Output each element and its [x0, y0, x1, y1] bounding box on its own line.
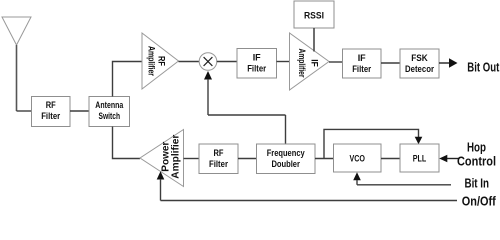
- wire IF amplifier to IF filter 2: [329, 61, 343, 63]
- wire LO: down to frequency doubler: [285, 115, 287, 144]
- wire mixer to IF filter 1: [217, 61, 237, 63]
- antenna switch: [89, 97, 130, 127]
- RF amplifier (receive): [142, 33, 179, 89]
- arrowhead into mixer (LO): [204, 71, 212, 80]
- svg-text:Detecor: Detecor: [405, 64, 434, 75]
- RSSI: [294, 1, 334, 28]
- VCO: [334, 144, 382, 172]
- wire on/off horizontal: [161, 200, 458, 202]
- svg-text:Bit In: Bit In: [465, 176, 490, 190]
- wire RSSI to IF amplifier: [313, 28, 315, 52]
- svg-text:Switch: Switch: [99, 111, 121, 122]
- IF amplifier: [290, 33, 330, 90]
- svg-text:RSSI: RSSI: [304, 11, 324, 22]
- wire LO: mixer down: [207, 79, 209, 115]
- arrowhead into power amplifier (on/off): [157, 171, 165, 179]
- wire bit in horizontal: [357, 184, 451, 186]
- wire RF filter to antenna switch: [70, 110, 89, 112]
- wire antenna switch down to power amplifier: [113, 127, 141, 159]
- wire VCO feedback to PLL: junction up: [324, 129, 419, 158]
- svg-text:RF: RF: [46, 100, 56, 111]
- wire hop control: [447, 158, 460, 160]
- svg-text:Filter: Filter: [41, 111, 60, 122]
- wire antenna to RF filter: [17, 110, 32, 112]
- wire frequency doubler to VCO: [315, 158, 334, 160]
- svg-text:RF: RF: [214, 148, 224, 159]
- svg-text:VCO: VCO: [349, 154, 365, 165]
- antenna stem wire: [16, 45, 18, 111]
- PLL: [400, 144, 439, 172]
- svg-text:Filter: Filter: [247, 64, 266, 75]
- wire RF amplifier to mixer: [179, 61, 200, 63]
- RF filter (receive): [32, 97, 71, 127]
- svg-text:IF: IF: [253, 53, 261, 64]
- RF filter (transmit): [199, 144, 238, 174]
- svg-text:Filter: Filter: [209, 159, 228, 170]
- wire LO horizontal: [208, 114, 286, 116]
- wire power amplifier to RF filter (tx): [184, 158, 200, 160]
- mixer: [199, 53, 217, 71]
- arrowhead bit out: [449, 58, 458, 68]
- svg-text:Antenna: Antenna: [95, 100, 124, 111]
- frequency doubler: [257, 144, 316, 174]
- IF filter 2: [343, 49, 382, 78]
- wire FSK detector to bit out arrow: [439, 62, 450, 64]
- svg-text:Doubler: Doubler: [271, 159, 300, 170]
- svg-text:Filter: Filter: [352, 64, 371, 75]
- svg-text:Hop: Hop: [467, 141, 486, 155]
- wire bit in vertical: [356, 180, 358, 185]
- FSK detector: [400, 49, 439, 78]
- svg-text:FSK: FSK: [411, 53, 428, 64]
- wire IF filter 1 to IF amplifier: [277, 61, 290, 63]
- wire on/off vertical: [160, 179, 162, 201]
- power amplifier: [140, 130, 184, 187]
- wire VCO to PLL: [381, 158, 400, 160]
- IF filter 1: [237, 49, 277, 79]
- svg-text:IF: IF: [358, 53, 366, 64]
- svg-text:PLL: PLL: [413, 154, 427, 165]
- arrowhead hop control into PLL: [439, 155, 447, 163]
- wire RF filter (tx) to frequency doubler: [238, 158, 257, 160]
- svg-text:Frequency: Frequency: [267, 148, 306, 159]
- arrowhead bit in into VCO: [353, 172, 361, 180]
- svg-text:On/Off: On/Off: [462, 194, 497, 206]
- svg-text:Bit Out: Bit Out: [467, 61, 500, 75]
- svg-text:Control: Control: [457, 155, 496, 169]
- wire IF filter 2 to FSK detector: [381, 62, 400, 64]
- arrowhead into PLL top: [415, 137, 423, 145]
- wire antenna switch up to RF amplifier: [113, 62, 143, 97]
- antenna: [2, 17, 31, 45]
